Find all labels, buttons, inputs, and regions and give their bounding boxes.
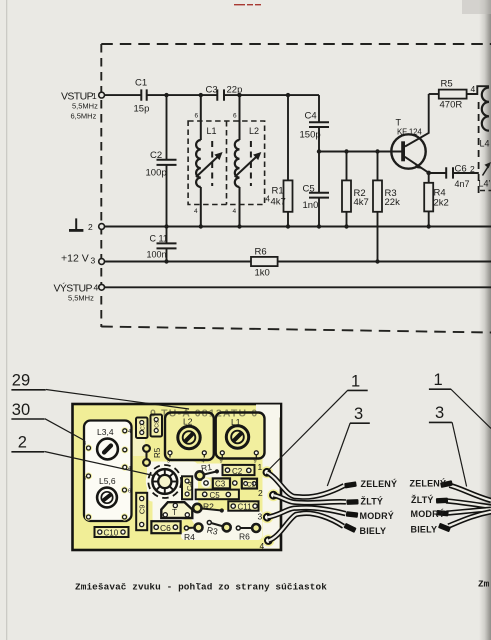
svg-text:6: 6 [195,113,199,120]
svg-text:8: 8 [83,476,86,482]
inductor L4' fragment [479,162,491,191]
resistor R4 [424,183,449,212]
capacitor C8 small vertical [151,415,163,437]
capacitor C9 pcb vertical [136,493,147,530]
svg-text:+12 V: +12 V [61,253,89,265]
trimmer core L3,4 [97,439,118,460]
capacitor C11 [147,234,177,260]
wire +12V pin3 to R6 [105,261,251,263]
PCB board outline and copper [73,404,282,550]
resistor R6 pcb [236,524,260,541]
node VSTUP junction L1 [199,93,203,97]
resistor R3 [373,180,400,211]
capacitor C5 [303,184,330,212]
svg-text:BIELY: BIELY [360,526,387,536]
svg-text:R6: R6 [239,531,250,541]
right scan shadow band [479,0,491,640]
wire R3 top lead [377,152,379,181]
wire VSTUP line pin1 to C1 [105,94,141,96]
svg-text:4: 4 [128,466,131,472]
svg-text:9: 9 [220,459,223,465]
capacitor C1 pcb [242,479,257,489]
node +12V junction C11 [164,259,168,263]
svg-text:3: 3 [258,512,263,522]
wire R5 to L4 pin4 [467,86,489,94]
wire R1 top lead [287,95,289,180]
wire R1 bottom lead [287,212,289,227]
wire C3 to C4 corner [224,94,319,96]
svg-text:C8: C8 [155,421,161,428]
wire base line C4 junction to transistor base [319,151,402,153]
wire labels left bundle [360,478,398,536]
wire labels right bundle [410,477,447,534]
wire C4 top lead [318,95,320,122]
callout label 30 [11,401,84,441]
svg-text:C2: C2 [232,467,243,476]
wire green left [267,472,357,497]
node ground junction C5 [317,224,321,228]
svg-text:4: 4 [266,195,271,204]
svg-text:MODRÝ: MODRÝ [360,510,395,521]
wire L1 bottom lead [200,187,202,227]
wire white left [268,513,356,540]
resistor R5 [439,79,467,111]
resistor R3 pcb [206,521,231,537]
capacitor C3 [206,85,243,101]
wire white right [438,512,491,532]
callout label 1 left [268,372,368,470]
svg-text:ZELENÝ: ZELENÝ [361,478,398,489]
node base line junction R3 [375,149,379,153]
pads under coil boxes [167,451,258,465]
svg-text:L4: L4 [480,139,490,149]
pin 1 terminal circle [99,92,105,98]
svg-text:1: 1 [434,371,443,389]
svg-text:MODRÝ: MODRÝ [411,508,446,519]
wire R3 bottom lead crossing ground to +12V [377,212,379,262]
svg-text:C1: C1 [135,78,147,89]
svg-text:5,5MHz: 5,5MHz [72,102,98,111]
ground symbol pin 2 [69,218,83,230]
node label VSTUP [61,91,98,121]
capacitor C2 [146,150,177,179]
node label VYSTUP [54,282,99,303]
node ground junction L1 [199,224,203,228]
svg-text:R6: R6 [255,247,267,258]
svg-text:6,5MHz: 6,5MHz [71,112,97,121]
svg-text:L1: L1 [207,126,217,136]
svg-text:0 TU-A 0812ATU 0: 0 TU-A 0812ATU 0 [150,408,258,420]
svg-text:C3: C3 [206,85,218,96]
wire C2 branch upper [166,95,168,159]
svg-text:4: 4 [128,429,131,435]
svg-text:470R: 470R [440,100,463,111]
callout label 1 right [429,371,491,428]
svg-text:2k2: 2k2 [434,198,449,209]
svg-text:R5: R5 [153,447,162,458]
svg-text:3: 3 [354,405,363,423]
wire C4 to base line [318,127,320,152]
wire pad 1 [258,462,271,476]
svg-text:1n0: 1n0 [303,200,319,211]
transistor T KF124 [391,118,425,169]
wire emitter diagonal [405,157,429,173]
left scan edge line [6,0,7,640]
svg-text:L2: L2 [249,126,259,136]
svg-text:15p: 15p [134,104,150,115]
wire C11 branch lower [166,249,168,262]
svg-text:8: 8 [83,441,86,447]
svg-text:4: 4 [233,208,237,215]
inductor L2 [235,126,262,187]
svg-text:L4’: L4’ [479,179,491,189]
wire yellow left [273,495,358,505]
wire R4 top lead [428,173,430,183]
svg-text:Zmiešavač zvuku - pohľad zo st: Zmiešavač zvuku - pohľad zo strany súčia… [75,582,327,593]
svg-text:6: 6 [233,113,237,120]
wire blue left [267,508,358,518]
wire collector vertical [405,94,429,147]
wire pad 3 [258,512,271,522]
svg-text:2: 2 [470,164,475,174]
svg-text:22k: 22k [385,197,401,208]
caption [75,579,490,593]
svg-text:C9: C9 [138,505,147,515]
svg-text:R5: R5 [441,79,453,90]
wire L2 bottom lead [239,187,241,227]
trimmer core L5,6 [97,488,117,508]
pin 4 terminal circle [99,284,105,290]
svg-text:4k7: 4k7 [271,197,286,208]
capacitor C2 pcb [223,465,255,476]
svg-text:ZELENÝ: ZELENÝ [410,477,447,488]
svg-text:9: 9 [254,459,257,465]
wire collector to R5 [429,93,439,95]
svg-text:30: 30 [12,401,30,419]
capacitor C6 pcb [151,521,180,533]
svg-text:2: 2 [258,488,263,498]
capacitor C5 pcb [196,490,239,500]
capacitor C7 small vertical [136,418,148,439]
node emitter junction [426,171,431,176]
callout label 2 [11,434,153,476]
svg-text:C1: C1 [247,481,256,488]
svg-text:C4: C4 [185,481,194,491]
svg-text:4n7: 4n7 [455,179,470,189]
wire pad 2 [258,488,277,499]
svg-text:1: 1 [351,372,360,390]
svg-text:R4: R4 [184,532,195,542]
node VSTUP junction C2 [164,93,168,97]
wire yellow right [436,498,491,507]
svg-text:1k0: 1k0 [255,268,270,279]
wire blue right [436,509,491,516]
wire L1 top lead [200,95,202,140]
wire C5 bottom lead [318,197,320,226]
node junction R1 top [286,93,290,97]
resistor R2 [342,180,369,211]
dashed border top [101,43,491,45]
svg-text:2: 2 [88,222,93,232]
dashed border bottom [101,327,491,333]
wire C6 to L4' [453,172,479,174]
wire R2 top lead [346,152,348,181]
svg-text:9: 9 [167,459,170,465]
node base line junction C4 [317,149,321,153]
capacitor C11 pcb [228,501,258,511]
coil former footprint (2) [148,465,181,498]
svg-text:T: T [172,508,177,517]
capacitor C4 [300,111,330,141]
svg-text:4: 4 [471,84,476,94]
capacitor C10 pcb [95,527,129,538]
capacitor C1 [134,78,150,115]
callout label 3 left [327,405,370,486]
svg-text:C4: C4 [305,111,317,122]
wire ground bus pin2 [105,226,491,228]
node base line junction R2 [344,149,348,153]
svg-text:150p: 150p [300,130,321,141]
svg-text:C11: C11 [238,503,253,512]
resistor R4 pcb [184,524,203,543]
svg-text:BIELY: BIELY [411,525,438,535]
inductor L1 [196,126,223,187]
svg-text:100p: 100p [146,168,167,179]
svg-text:ŽLTÝ: ŽLTÝ [361,496,384,507]
wire VYSTUP line pin4 [105,286,491,288]
wire green right [440,480,491,500]
svg-text:KF 124: KF 124 [397,128,422,137]
svg-text:5,5MHz: 5,5MHz [68,294,94,303]
wire R2 bottom lead [346,212,348,227]
pad row on coil box edges [85,427,129,520]
svg-text:ŽLTÝ: ŽLTÝ [411,494,434,505]
node ground junction L2 [237,224,241,228]
resistor R5 pcb [143,445,162,466]
resistor R6 [251,247,278,279]
svg-text:R1: R1 [272,186,284,197]
wire C2 branch lower [166,165,168,226]
capacitor C6 [446,164,469,190]
callout label 3 right [429,404,467,486]
svg-text:C2: C2 [150,150,162,161]
pin 3 terminal circle [99,259,105,265]
resistor R2 pcb [193,502,224,513]
tiny red print top [234,4,261,5]
pin number labels on coil box [83,429,131,495]
coil assembly L3,4 L5,6 outline box [84,421,132,522]
node +12V junction R3 [375,259,379,263]
node ground junction R1 [286,224,290,228]
svg-text:29: 29 [12,372,30,390]
svg-text:C5: C5 [303,184,315,195]
svg-text:C 11: C 11 [150,234,168,244]
wire emitter to C6 [429,172,446,174]
node ground junction R2 [344,224,348,228]
wire C11 branch upper [166,227,168,244]
pin 2 terminal circle [99,224,105,230]
svg-text:4k7: 4k7 [354,197,369,208]
svg-text:L5,6: L5,6 [99,476,116,486]
wire R4 bottom lead [428,211,430,226]
node label +12V [61,253,96,266]
wire C5 top lead [318,152,320,193]
wire C1 to C3 [147,94,217,96]
inductor L4 coil at right edge [479,88,490,194]
svg-text:C6: C6 [160,523,171,533]
svg-text:T: T [396,118,402,128]
capacitor C4 pcb vertical [182,476,194,499]
svg-text:C3: C3 [215,480,226,489]
svg-text:1: 1 [258,462,263,472]
transistor T footprint [161,502,192,518]
svg-text:C10: C10 [104,529,119,538]
callout label 29 [11,372,189,410]
dashed border left [100,44,102,327]
wire L2 top lead [239,95,241,140]
inductor shield dashed box L1 L2 [188,121,265,205]
node ground junction C2-C11 [164,224,168,228]
svg-text:C7: C7 [140,423,146,430]
svg-text:4: 4 [94,283,99,293]
node junction L2 [237,93,241,97]
wire pad 4 [260,537,272,551]
svg-text:3: 3 [91,256,96,266]
wire R6 to right edge [278,261,491,263]
svg-text:3: 3 [435,404,444,422]
resistor R1 [271,180,293,211]
svg-text:C6: C6 [455,164,467,175]
svg-text:C5: C5 [210,491,221,500]
svg-text:100n: 100n [147,250,167,260]
inductor shield divider [226,121,228,205]
node ground junction R4 [427,224,431,228]
svg-text:6: 6 [128,489,131,495]
svg-text:Zm: Zm [478,579,490,590]
capacitor C3 pcb [201,478,237,488]
svg-text:L3,4: L3,4 [97,427,114,437]
resistor R1 pcb [196,462,219,480]
svg-text:1: 1 [92,91,97,101]
svg-text:2: 2 [18,434,27,452]
svg-text:4: 4 [194,208,198,215]
svg-text:4: 4 [260,541,265,551]
coil L2 footprint box [165,413,214,461]
coil L1 footprint box [216,413,265,459]
svg-text:22p: 22p [227,85,243,96]
